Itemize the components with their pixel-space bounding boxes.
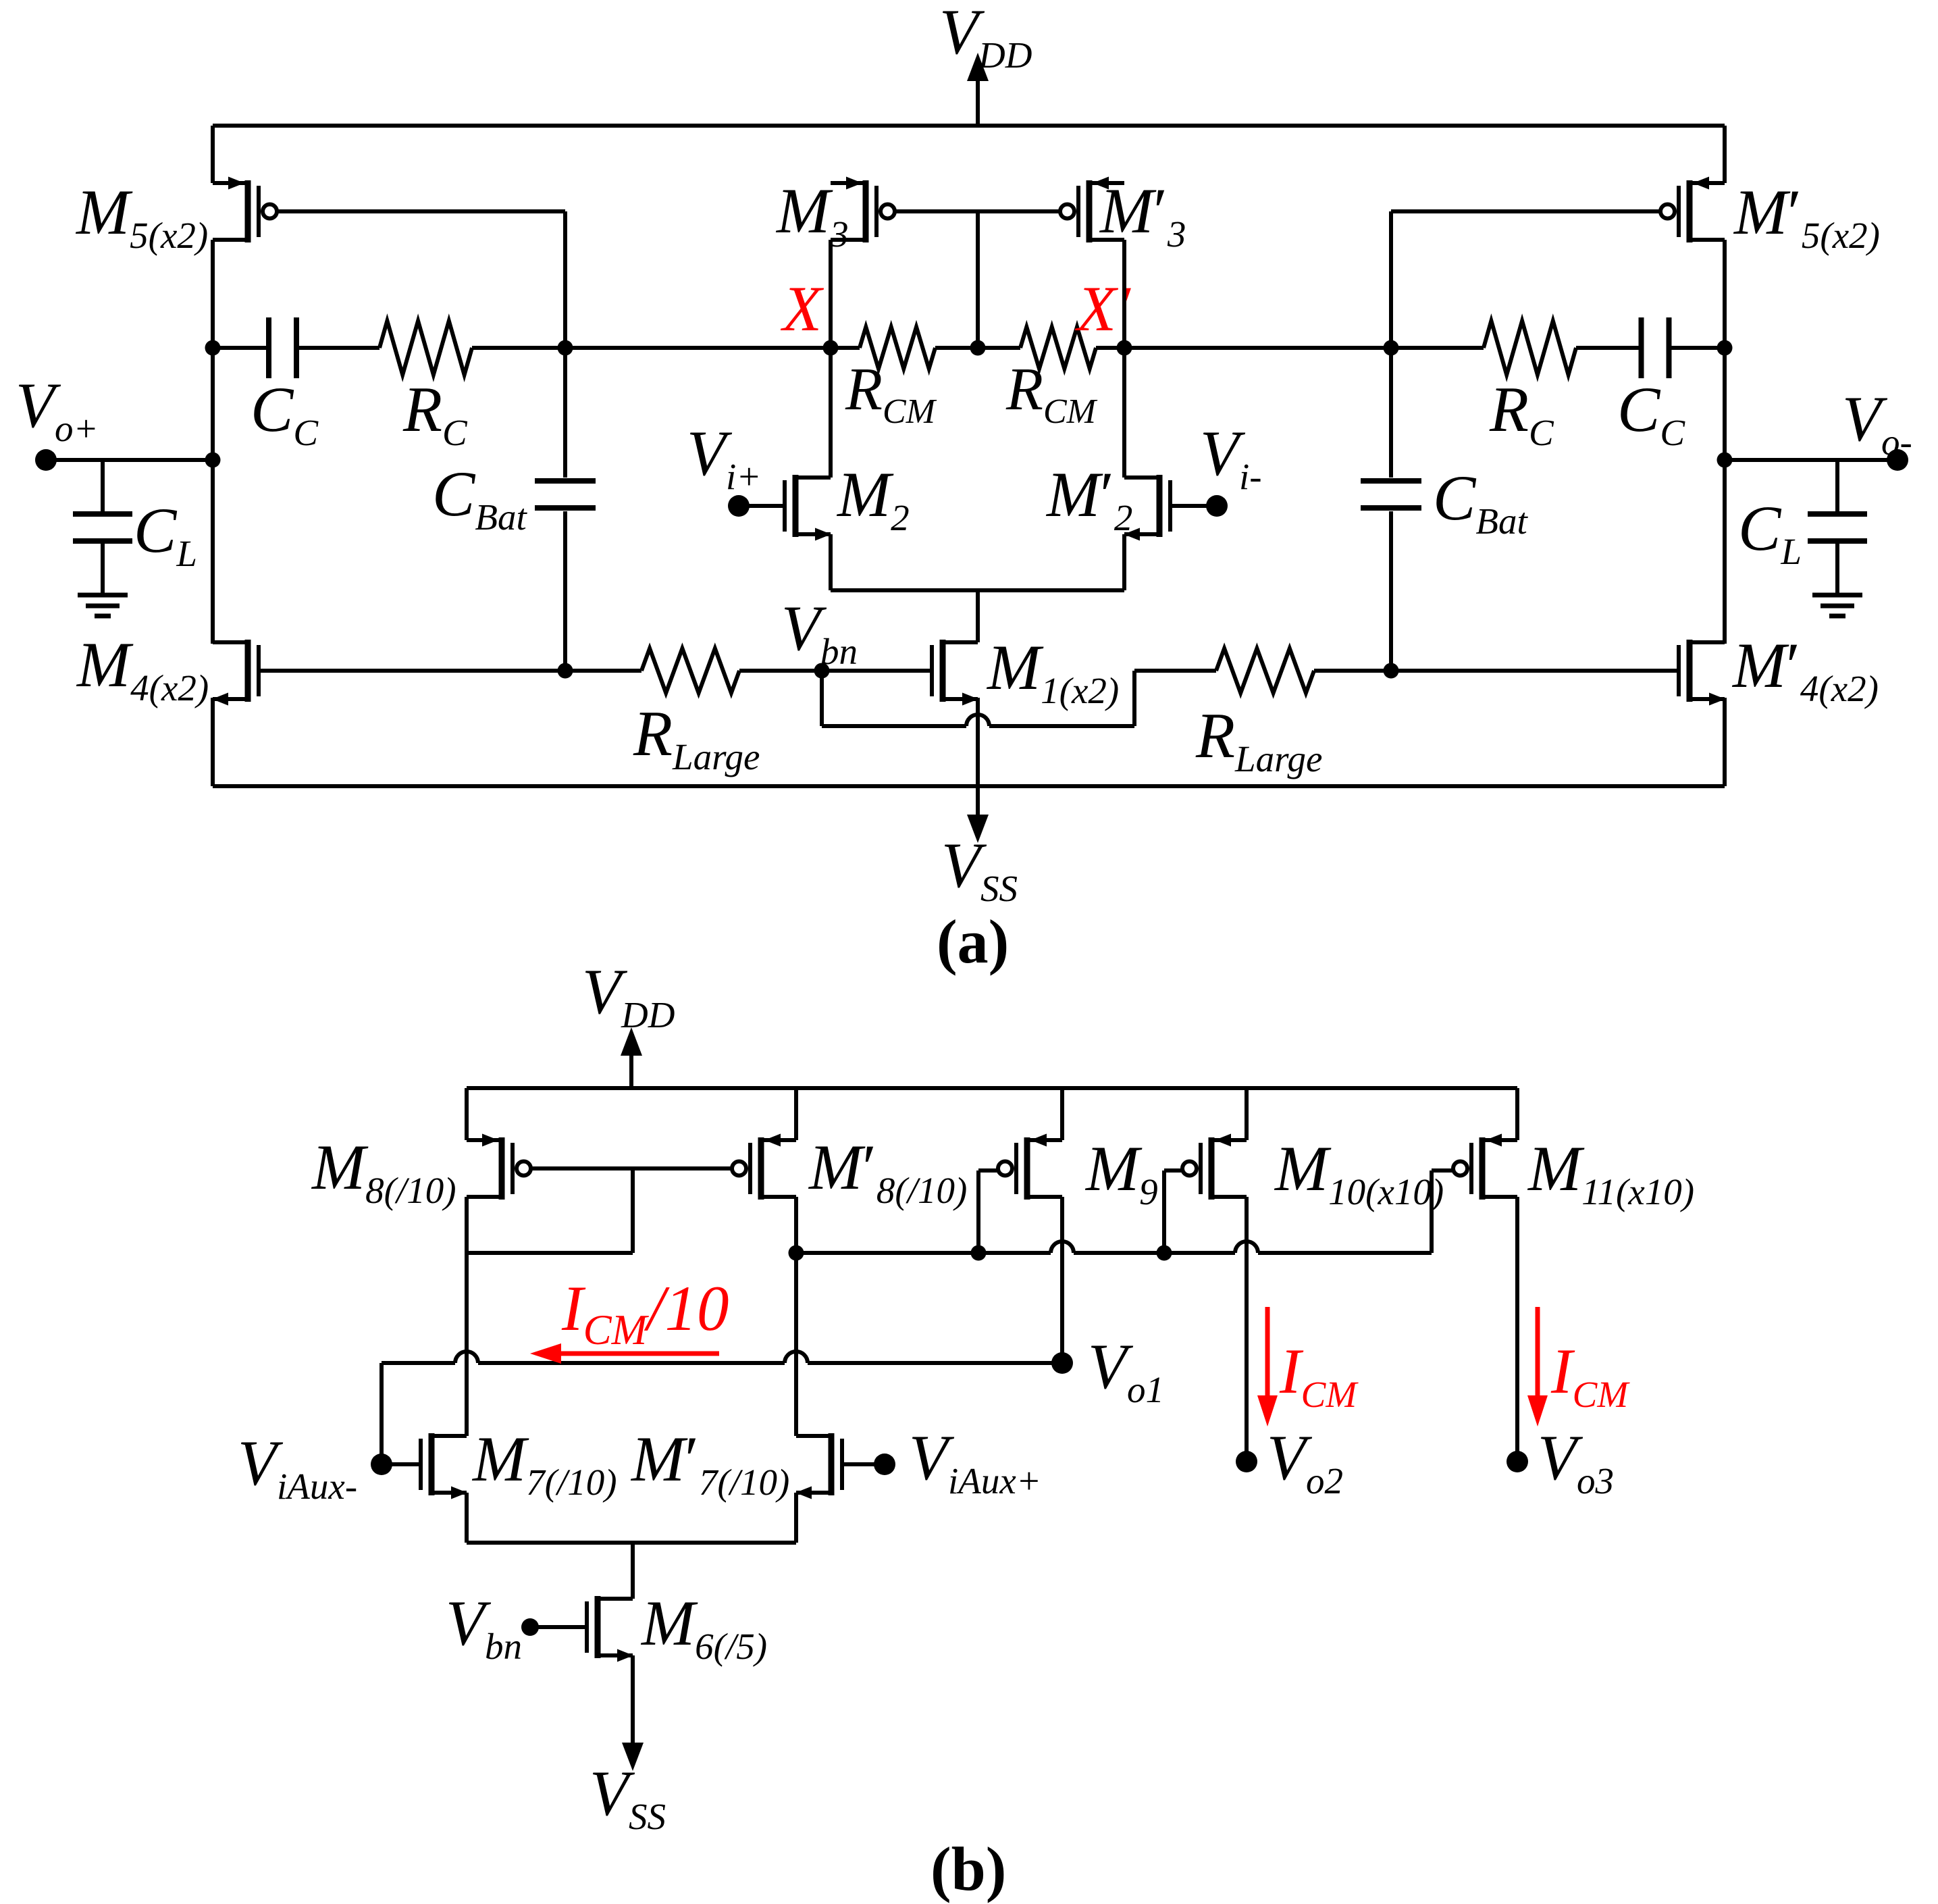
transistor M7 (NMOS /10) <box>431 1434 467 1438</box>
node RCM center junction <box>970 340 986 356</box>
wire: X' node vertical to M'2 drain <box>1122 240 1126 478</box>
transistor M5 (PMOS x2) <box>213 181 248 185</box>
wire: main node line X to X' (a) <box>213 346 269 350</box>
ground right <box>1812 593 1862 598</box>
wire: M11 drain to Vo3 <box>1515 1197 1519 1462</box>
wire: bottom rail (a) <box>213 784 1725 788</box>
terminal Vo+ <box>35 449 57 471</box>
wire: Vbn lower link with crossover hop <box>820 671 824 726</box>
resistor RCM left <box>860 327 935 369</box>
capacitor CC right <box>1639 317 1644 378</box>
terminal Vo2 <box>1236 1451 1257 1472</box>
node left rail junction <box>205 340 221 356</box>
wire: M10 drain to Vo2 <box>1245 1197 1249 1462</box>
wire: VDD top rail (b) <box>467 1086 1517 1090</box>
capacitor CBat left <box>563 348 567 478</box>
ground left <box>78 593 128 598</box>
wire: M'8 drain vertical <box>794 1197 798 1436</box>
terminal Vbn (b) <box>521 1618 539 1636</box>
wire: differential pair tail <box>829 534 833 590</box>
transistor M8 (PMOS /10) <box>467 1138 502 1142</box>
terminal Vi+ <box>728 495 750 517</box>
current arrow ICM at Vo2 (red) <box>1265 1307 1270 1399</box>
terminal ViAux+ <box>874 1453 895 1475</box>
wire: M3-M'3 gate wire <box>895 209 1060 213</box>
transistor M6 (NMOS /5) <box>598 1597 633 1601</box>
node M9 gate junction <box>971 1245 987 1261</box>
wire: VDD top rail (a) <box>213 124 1725 128</box>
wire: M4 gate line to CBat node <box>259 669 565 673</box>
resistor RLarge left <box>565 669 641 673</box>
transistor M'8 (PMOS /10) <box>761 1138 796 1142</box>
power VSS symbol (a) <box>967 815 989 843</box>
wire: M8 diode connection <box>631 1168 635 1253</box>
capacitor CL left <box>101 460 105 514</box>
node left compensation junction <box>558 340 573 356</box>
wire: M9 gate stub <box>978 1168 998 1173</box>
power VDD symbol (b) <box>629 1056 633 1088</box>
transistor M10 (PMOS x10) <box>1211 1138 1247 1142</box>
node CBat-right / gate-line junction <box>1384 663 1399 679</box>
node CBat-left / gate-line junction <box>558 663 573 679</box>
wire: M8-M'8 gate wire <box>531 1166 732 1170</box>
resistor RLarge right <box>1134 669 1216 673</box>
resistor RCM right <box>1020 327 1096 369</box>
node M'8 drain / gate-distribution junction <box>789 1245 804 1261</box>
transistor M3 (PMOS) <box>831 181 866 185</box>
current arrow ICM at Vo3 (red) <box>1536 1307 1540 1399</box>
transistor M'7 (NMOS /10) <box>796 1434 831 1438</box>
resistor RC left <box>379 321 472 375</box>
transistor M4 (NMOS x2) <box>213 640 248 644</box>
transistor M'5 (PMOS x2) <box>1690 181 1725 185</box>
transistor M'3 (PMOS) <box>1089 181 1124 185</box>
wire: M10 gate stub <box>1164 1168 1182 1173</box>
transistor M'4 (NMOS x2) <box>1690 640 1725 644</box>
terminal ViAux- <box>371 1453 392 1475</box>
node right rail junction <box>1717 340 1733 356</box>
wire: M'5 gate to compensation node <box>1391 209 1660 213</box>
node X junction <box>823 340 839 356</box>
wire: gate line to M'4 <box>1391 669 1679 673</box>
node right compensation junction <box>1384 340 1399 356</box>
wire: right output branch vertical (a) <box>1723 126 1727 183</box>
capacitor CL right <box>1835 460 1839 514</box>
wire: gate sense to RCM center <box>976 211 980 348</box>
terminal Vo3 <box>1507 1451 1528 1472</box>
transistor M1 (NMOS x2 tail current source) <box>943 640 978 644</box>
capacitor CBat right <box>1389 348 1393 478</box>
resistor RC right <box>1484 321 1576 375</box>
node X' junction <box>1117 340 1132 356</box>
wire: M7/M'7 common source <box>465 1493 469 1543</box>
node Vbn (a) <box>814 663 830 679</box>
wire: M1 source to VSS <box>976 698 980 816</box>
wire: M6 source to VSS <box>631 1655 635 1743</box>
svg-text:(a): (a) <box>937 907 1009 976</box>
node M10 gate junction <box>1157 1245 1172 1261</box>
wire: X node vertical to M2 drain <box>829 240 833 478</box>
capacitor CC left <box>266 317 271 378</box>
wire: gate distribution line with hops <box>796 1251 1051 1255</box>
transistor M2 (NMOS) <box>795 475 831 480</box>
transistor M11 (PMOS x10) <box>1482 1138 1517 1142</box>
wire: M9 drain to Vo1 <box>1060 1197 1064 1363</box>
terminal Vo- <box>1887 449 1908 471</box>
wire: Vbn to M1 gate <box>822 669 932 673</box>
wire: ViAux- to M7 gate and ICM wire <box>379 1363 384 1464</box>
wire: M8 drain vertical <box>465 1197 469 1436</box>
power VSS symbol (b) <box>622 1743 644 1771</box>
current arrow ICM/10 (red) <box>555 1352 719 1356</box>
transistor M9 (PMOS) <box>1027 1138 1062 1142</box>
svg-text:(b): (b) <box>931 1834 1006 1903</box>
svg-text:X: X <box>780 273 824 344</box>
wire: M5 gate to compensation node <box>277 209 565 213</box>
terminal Vo1 <box>1051 1352 1073 1374</box>
wire: ICM/10 feedback wire with hops <box>382 1361 455 1365</box>
power VDD symbol (a) <box>976 81 980 126</box>
transistor M'2 (NMOS) <box>1124 475 1159 480</box>
wire: left output branch vertical (a) <box>211 126 215 183</box>
terminal Vi- <box>1206 495 1228 517</box>
